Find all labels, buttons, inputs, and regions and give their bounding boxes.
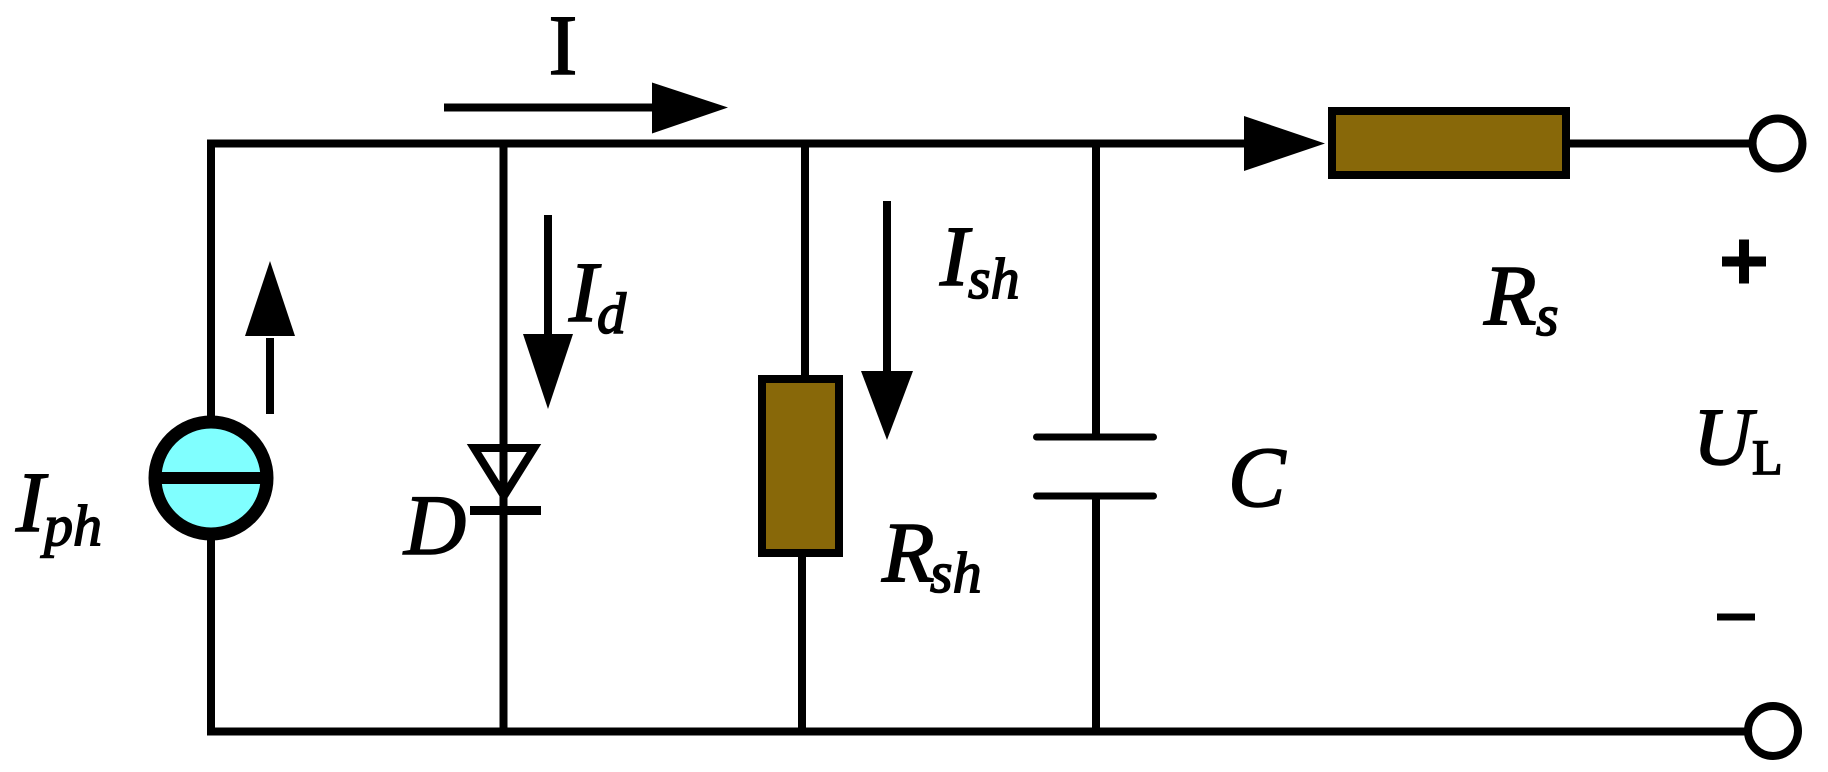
current source Iph circle [155, 422, 267, 534]
svg-text:s: s [1536, 283, 1559, 348]
arrow up (Iph direction) tail [266, 338, 274, 414]
top terminal [1753, 119, 1803, 169]
wire capacitor branch top [1092, 140, 1100, 438]
svg-text:U: U [1693, 391, 1757, 482]
minus sign [1717, 614, 1755, 621]
diode cathode bar [470, 506, 541, 515]
svg-text:sh: sh [968, 246, 1020, 311]
plus sign [1722, 257, 1766, 267]
svg-text:d: d [597, 281, 627, 346]
wire top rail [207, 140, 1248, 148]
arrow Id tail [544, 215, 552, 338]
arrow Ish head [861, 371, 913, 440]
diode D triangle [474, 448, 534, 496]
wire diode branch [500, 140, 508, 736]
resistor Rs [1332, 111, 1566, 175]
svg-text:sh: sh [930, 540, 982, 605]
svg-text:I: I [549, 0, 578, 93]
arrow Id head [523, 334, 573, 409]
wire source branch top [207, 140, 215, 429]
wire source branch bottom [207, 530, 215, 736]
wire capacitor branch bottom [1092, 496, 1100, 736]
svg-text:ph: ph [40, 493, 102, 558]
arrow up (Iph direction) head [245, 261, 295, 336]
arrow I tail [444, 104, 655, 112]
svg-text:R: R [1483, 247, 1537, 343]
capacitor C bottom plate [1037, 493, 1154, 500]
svg-text:D: D [403, 477, 466, 573]
capacitor C top plate [1037, 434, 1154, 441]
wire Rsh branch bottom [798, 550, 806, 736]
arrow I head [652, 83, 728, 134]
arrow into Rs head [1244, 116, 1325, 171]
wire Rsh branch top [801, 140, 809, 383]
resistor Rsh [762, 379, 839, 553]
arrow Ish tail [883, 201, 891, 373]
svg-text:L: L [1752, 429, 1783, 485]
current source diameter bar [150, 472, 272, 484]
wire bottom rail [207, 728, 1746, 736]
svg-text:R: R [881, 504, 935, 600]
svg-text:C: C [1228, 429, 1287, 525]
wire Rs to top terminal [1566, 140, 1750, 148]
bottom terminal [1748, 706, 1798, 756]
